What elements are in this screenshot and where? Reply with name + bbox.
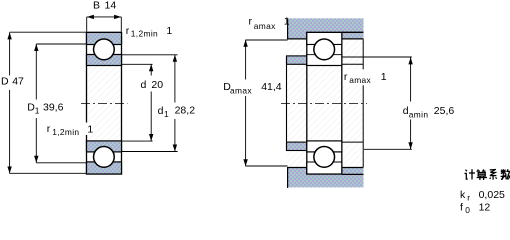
left bearing ball bottom — [94, 147, 115, 168]
dimension B 14 lines — [87, 17, 122, 32]
svg-text:1: 1 — [164, 109, 169, 119]
数 — [501, 171, 506, 173]
shaft/housing right end face line — [362, 39, 364, 167]
right bearing (mounted, outline only) — [307, 32, 342, 174]
svg-text:1: 1 — [166, 25, 172, 37]
left figure center axis line — [81, 102, 128, 104]
dimension d_amin 25,6 lines — [342, 57, 412, 149]
计 — [465, 170, 467, 172]
left bearing inner ring top section — [87, 55, 122, 66]
svg-text:d: d — [141, 79, 147, 91]
calculation factors heading (CJK drawn as paths) — [465, 169, 510, 180]
svg-text:r: r — [47, 123, 51, 135]
dimension D1 39,6 lines — [36, 44, 86, 163]
svg-text:14: 14 — [105, 0, 117, 12]
right bearing ball bottom — [314, 147, 335, 168]
shaft shoulder top (d_a) — [287, 56, 308, 64]
svg-text:39,6: 39,6 — [43, 102, 64, 114]
left bearing outline — [87, 32, 122, 174]
right bearing outline — [307, 32, 342, 174]
shaft left end face line — [286, 56, 288, 151]
svg-text:amax: amax — [254, 21, 276, 31]
right bearing outer ring top section — [307, 32, 342, 44]
dimension d1 28,2 lines — [122, 55, 178, 152]
left bearing outer ring top section — [87, 32, 122, 44]
svg-text:0: 0 — [465, 205, 470, 215]
svg-text:20: 20 — [151, 79, 163, 91]
svg-text:28,2: 28,2 — [175, 104, 196, 116]
svg-text:12: 12 — [479, 202, 491, 214]
svg-text:amax: amax — [230, 86, 252, 96]
left bearing ball top — [94, 39, 115, 60]
svg-text:f: f — [460, 202, 463, 214]
svg-text:amax: amax — [349, 75, 371, 85]
left bearing bore hatch — [87, 66, 121, 141]
housing section top — [288, 18, 364, 39]
right bearing outer ring bottom section — [307, 162, 342, 174]
系 — [490, 169, 496, 171]
svg-text:1,2min: 1,2min — [52, 127, 79, 137]
shaft seat lines right of bearing — [342, 63, 363, 65]
label r_amax 1 (shaft fillet) — [343, 69, 387, 85]
svg-text:1: 1 — [381, 71, 387, 83]
housing section bottom — [288, 167, 364, 188]
right bearing inner ring top section — [307, 55, 342, 66]
svg-text:amin: amin — [409, 109, 429, 119]
算 — [477, 169, 480, 171]
dimension d 20 lines — [122, 64, 153, 141]
dimension D_amax 41,4 lines — [246, 40, 288, 166]
left bearing outer ring bottom section — [87, 162, 122, 174]
right figure interior hatch — [287, 39, 363, 167]
svg-text:r: r — [467, 192, 470, 202]
svg-text:B: B — [93, 0, 100, 12]
svg-text:1,2min: 1,2min — [131, 29, 158, 39]
left bearing inner ring bottom section — [87, 141, 122, 152]
svg-text:r: r — [344, 71, 348, 83]
right bearing ring gap pockets — [308, 45, 341, 54]
svg-text:1: 1 — [284, 16, 290, 28]
svg-text:25,6: 25,6 — [434, 105, 455, 117]
right bearing ball top — [314, 39, 335, 60]
svg-text:D: D — [1, 76, 9, 88]
svg-text:41,4: 41,4 — [261, 81, 282, 93]
svg-text:1: 1 — [35, 106, 40, 116]
shaft shoulder bottom (d_a) — [287, 142, 308, 150]
svg-text:r: r — [126, 25, 130, 37]
right figure center axis line — [281, 102, 367, 104]
dimension D 47 lines — [10, 32, 87, 173]
label r 1,2min 1 (inner ring chamfer) — [85, 123, 94, 136]
svg-text:k: k — [460, 189, 466, 201]
right bearing inner ring bottom section — [307, 141, 342, 152]
svg-text:d: d — [158, 105, 164, 117]
svg-text:47: 47 — [12, 76, 24, 88]
svg-text:0,025: 0,025 — [479, 189, 505, 201]
svg-text:r: r — [249, 15, 253, 27]
svg-text:1: 1 — [87, 123, 93, 135]
